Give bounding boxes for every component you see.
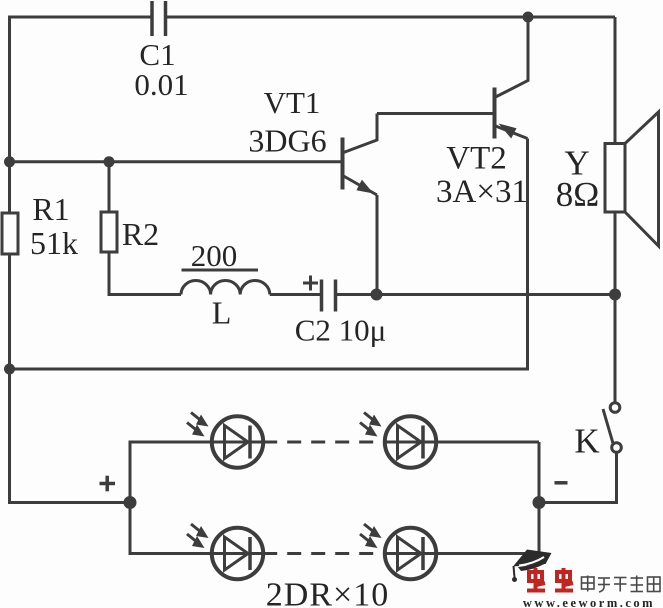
wire VT2 emitter down to bottom rail	[10, 139, 528, 370]
watermark chongchong characters	[527, 568, 573, 591]
svg-text:200: 200	[191, 238, 238, 273]
svg-text:2DR×10: 2DR×10	[266, 577, 389, 608]
minus sign at LED bank	[555, 481, 568, 485]
switch K	[603, 403, 621, 453]
node C (VT1 emitter x middle rail)	[371, 289, 383, 301]
wire inductor to C2	[270, 293, 320, 296]
node plus terminal	[124, 496, 137, 509]
transistor VT2	[495, 17, 529, 139]
svg-text:51k: 51k	[30, 225, 78, 261]
svg-text:K: K	[574, 422, 599, 461]
transistor VT1	[343, 114, 378, 196]
wire VT1 emitter down to middle rail	[376, 195, 379, 295]
capacitor C2 (electrolytic, + on left)	[303, 276, 336, 312]
svg-text:3DG6: 3DG6	[248, 123, 326, 159]
wire base line (left rail to VT1 base)	[10, 160, 342, 163]
photodiode D1 (2DR cell, top-left)	[187, 413, 263, 468]
wire left rail lower (through R1 down to + corner)	[10, 254, 131, 503]
photodiode D4 (2DR cell, bottom-right)	[360, 524, 436, 579]
watermark logo cap	[512, 550, 552, 583]
plus sign at LED bank	[100, 476, 116, 492]
inductor L	[181, 281, 270, 295]
svg-text:R2: R2	[122, 216, 159, 252]
svg-text:3A×31: 3A×31	[436, 174, 528, 210]
resistor R2	[101, 212, 117, 252]
node A (left rail x base line)	[4, 156, 15, 167]
node top junction (VT2 collector to top rail)	[523, 12, 534, 23]
capacitor C1	[152, 1, 166, 36]
svg-text:VT1: VT1	[264, 85, 321, 120]
wire R2 top lead	[108, 162, 111, 212]
svg-text:L: L	[212, 295, 232, 331]
wire right rail top (top rail corner down to speaker)	[614, 17, 617, 144]
wire speaker to middle rail node	[614, 212, 617, 295]
wire LED bottom branch	[130, 503, 264, 554]
node D (middle rail x speaker line)	[609, 289, 621, 301]
wire VT1 collector to VT2 base	[377, 112, 493, 115]
label 200 underline	[182, 269, 259, 272]
photodiode D2 (2DR cell, top-right)	[360, 413, 436, 468]
wire middle node down to switch	[614, 295, 617, 403]
node minus terminal	[533, 496, 546, 509]
wire top rail left (from top-left corner to C1)	[10, 17, 152, 213]
svg-text:VT2: VT2	[446, 141, 507, 177]
resistor R1	[2, 213, 18, 254]
svg-text:C2 10μ: C2 10μ	[295, 313, 387, 348]
node E (left rail x bottom rail)	[4, 364, 15, 375]
photodiode D3 (2DR cell, bottom-left)	[187, 524, 263, 579]
svg-text:www.eeworm.com: www.eeworm.com	[523, 596, 655, 608]
wire LED top branch	[130, 442, 264, 503]
svg-text:0.01: 0.01	[134, 67, 188, 102]
watermark site name characters	[582, 576, 661, 593]
svg-text:R1: R1	[32, 191, 69, 227]
wire switch to minus node	[539, 452, 617, 502]
wire middle rail (C2 to speaker branch)	[337, 293, 616, 296]
wire R2 bottom lead to inductor	[109, 252, 181, 295]
svg-text:8Ω: 8Ω	[556, 175, 600, 214]
speaker Y	[605, 112, 659, 246]
wire top rail right (C1 to right corner)	[167, 16, 616, 19]
node B (base line x R2)	[104, 156, 115, 167]
